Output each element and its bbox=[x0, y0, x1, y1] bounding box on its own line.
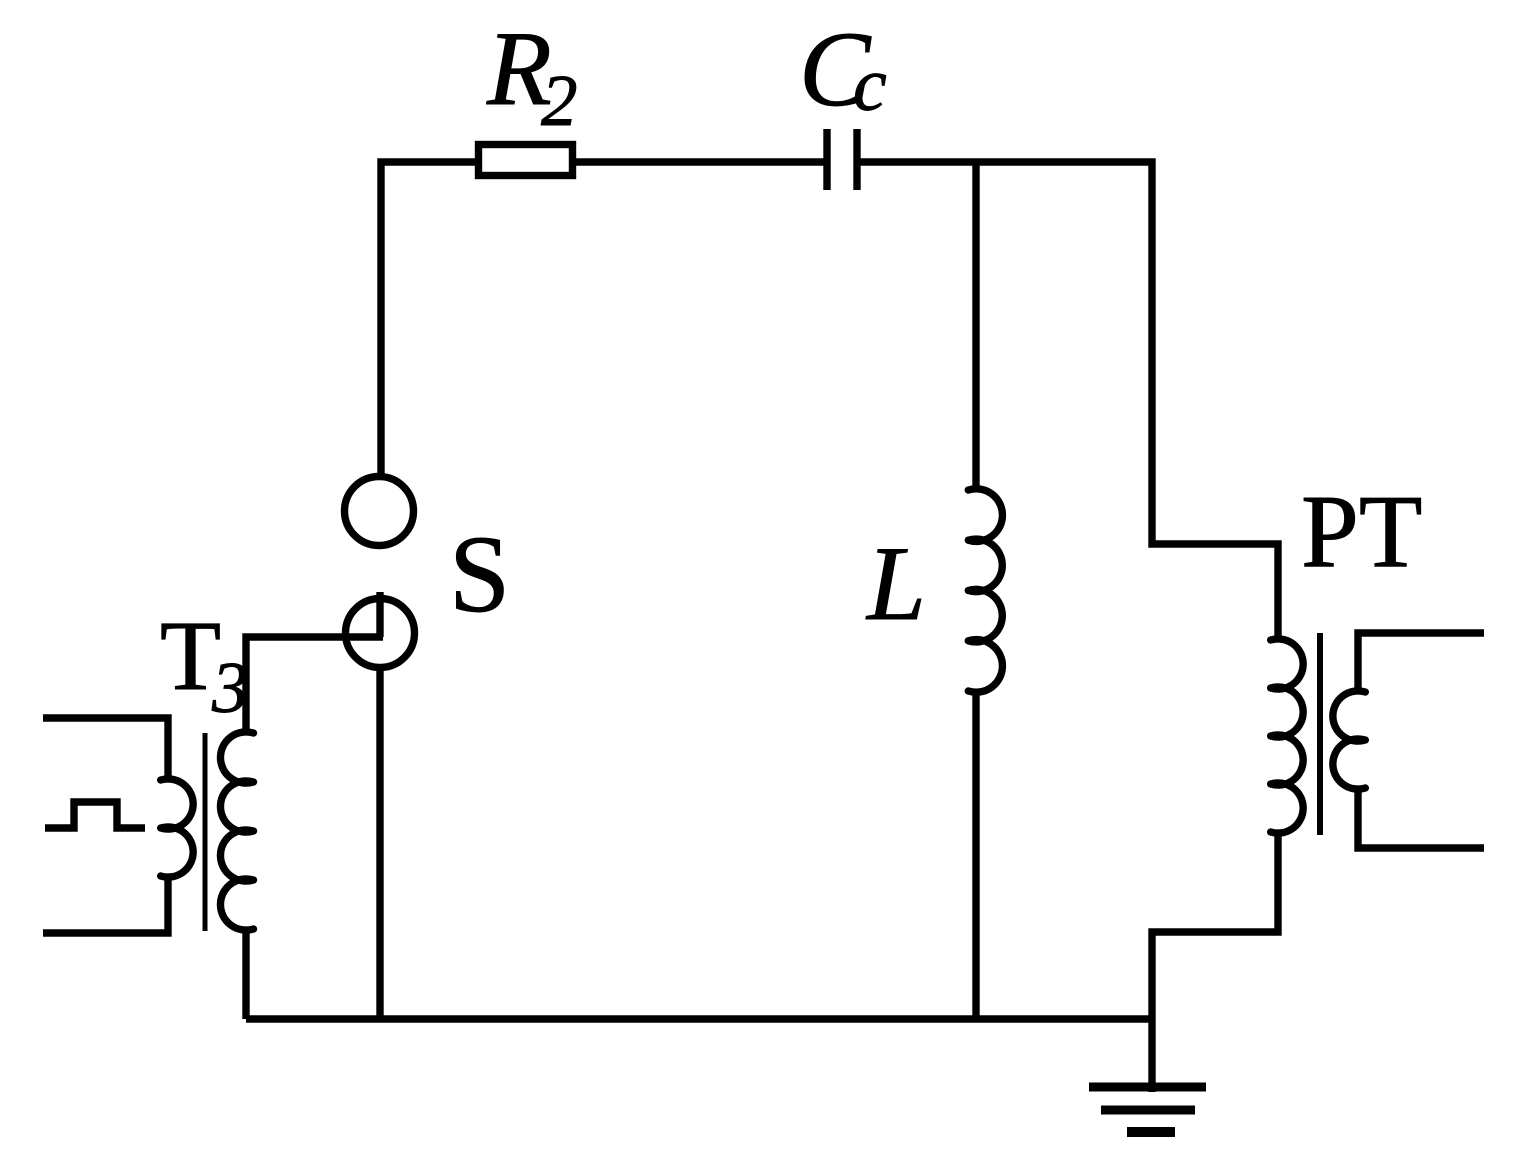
svg-text:S: S bbox=[449, 513, 510, 635]
svg-text:3: 3 bbox=[211, 647, 249, 728]
svg-text:2: 2 bbox=[541, 60, 578, 141]
svg-text:L: L bbox=[865, 525, 926, 642]
svg-text:PT: PT bbox=[1301, 474, 1422, 589]
svg-text:c: c bbox=[853, 43, 887, 127]
